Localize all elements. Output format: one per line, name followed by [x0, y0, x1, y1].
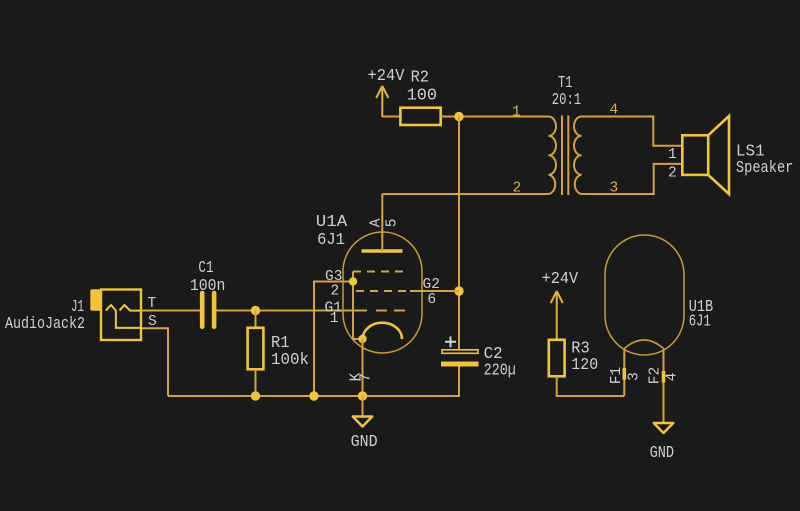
wire anode to T1 pin2 — [382, 193, 548, 195]
junction G3 internal — [349, 277, 357, 285]
envelope — [605, 235, 684, 355]
svg-text:1: 1 — [512, 105, 521, 121]
grid G1 dashed — [376, 310, 405, 312]
G3 internal link — [353, 272, 363, 340]
junction cathode internal — [358, 335, 366, 343]
svg-text:R2: R2 — [411, 68, 429, 87]
wire sleeve drop — [141, 328, 168, 396]
svg-text:S: S — [148, 314, 157, 330]
svg-text:1: 1 — [668, 147, 677, 163]
power +24V right — [551, 291, 563, 340]
wire T1 pin4 to speaker pin1 — [582, 117, 683, 146]
wire G2 pin — [410, 290, 459, 292]
wire screen/bypass vertical — [458, 117, 460, 350]
svg-text:C1: C1 — [198, 258, 213, 277]
svg-text:A: A — [369, 218, 385, 227]
svg-text:6: 6 — [427, 292, 436, 308]
F1 lead — [623, 349, 625, 397]
svg-text:2: 2 — [331, 284, 340, 300]
wire T1 pin3 to speaker pin2 — [582, 164, 683, 194]
svg-text:AudioJack2: AudioJack2 — [5, 314, 85, 333]
svg-text:5: 5 — [384, 219, 400, 228]
tube U1A — [316, 194, 440, 396]
svg-text:20:1: 20:1 — [552, 90, 581, 109]
wire C1 to grid node — [216, 310, 367, 312]
wire G3 pin drop — [314, 282, 353, 397]
ground GND right — [650, 423, 674, 462]
cathode lead — [362, 339, 364, 396]
svg-text:120: 120 — [571, 355, 598, 374]
grid G2 dashed — [356, 290, 410, 292]
wire C2 bottom to ground bus — [168, 367, 459, 397]
envelope — [343, 232, 422, 353]
resistor R3 — [549, 339, 598, 377]
svg-text:GND: GND — [351, 432, 378, 451]
svg-text:220µ: 220µ — [484, 361, 516, 380]
svg-text:+24V: +24V — [368, 66, 405, 85]
junction G3 drop bottom — [309, 391, 318, 400]
anode bar — [362, 249, 403, 253]
junction G2 node — [454, 286, 463, 295]
wire T pin to C1 — [141, 310, 200, 312]
svg-text:2: 2 — [668, 166, 677, 182]
svg-text:100k: 100k — [271, 350, 309, 369]
svg-text:GND: GND — [650, 443, 674, 462]
ground GND left — [351, 396, 378, 451]
svg-text:100: 100 — [407, 86, 437, 105]
resistor R2 — [400, 68, 440, 126]
svg-text:+24V: +24V — [542, 269, 579, 288]
svg-text:6J1: 6J1 — [689, 312, 711, 331]
grid G3 dashed — [353, 271, 409, 273]
F2 pin stub — [662, 371, 666, 383]
svg-text:Speaker: Speaker — [736, 158, 794, 177]
capacitor C2 — [441, 336, 516, 379]
svg-text:U1A: U1A — [316, 212, 348, 231]
tube U1B — [605, 235, 713, 423]
transformer T1 — [549, 116, 582, 196]
speaker LS1 — [682, 116, 729, 194]
C2 plus polarity mark — [445, 336, 456, 347]
svg-text:4: 4 — [665, 373, 681, 382]
heater arc — [624, 340, 663, 349]
svg-text:6J1: 6J1 — [317, 230, 345, 249]
capacitor C1 — [190, 258, 226, 327]
svg-text:F1: F1 — [609, 367, 625, 384]
cathode arc — [363, 323, 402, 339]
svg-text:F2: F2 — [647, 367, 663, 384]
svg-text:7: 7 — [359, 373, 375, 382]
junction at R2 output — [454, 112, 463, 121]
F1 pin stub — [623, 368, 627, 380]
junction cathode bus — [358, 391, 367, 400]
anode lead — [381, 194, 383, 251]
svg-text:1: 1 — [330, 311, 339, 327]
wire R2 to T1 pin1 — [441, 116, 549, 118]
F2 lead — [663, 349, 665, 424]
connector J1 AudioJack2 — [5, 289, 157, 340]
power +24V left — [376, 86, 388, 117]
junction R1 bottom — [251, 391, 260, 400]
wire power to R2 — [382, 116, 400, 118]
wire R3 to F1 — [557, 376, 625, 396]
svg-text:100n: 100n — [190, 276, 226, 295]
junction grid node — [251, 306, 260, 315]
svg-text:3: 3 — [627, 372, 643, 381]
resistor R1 — [248, 311, 309, 397]
